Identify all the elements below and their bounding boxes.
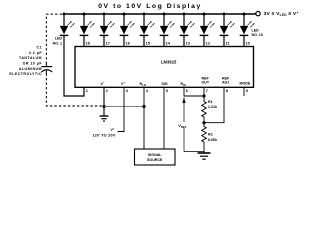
LED 1 — [60, 14, 75, 35]
node pin7 — [202, 94, 205, 97]
capacitor C1 — [41, 64, 52, 74]
svg-text:8.06k: 8.06k — [208, 138, 217, 142]
LED 7 — [180, 14, 195, 35]
node R1/R2 (REF ADJ) — [202, 121, 205, 124]
svg-text:3V ≤ VLED ≤ V+: 3V ≤ VLED ≤ V+ — [264, 11, 299, 17]
svg-text:C1: C1 — [37, 46, 43, 50]
svg-text:6: 6 — [186, 89, 188, 93]
node pin4 — [142, 105, 145, 108]
node pin2 ground — [102, 105, 105, 108]
svg-text:R2: R2 — [208, 133, 213, 137]
signal source box — [135, 149, 176, 165]
svg-text:OUT: OUT — [202, 81, 210, 85]
svg-text:LM3915: LM3915 — [161, 59, 177, 64]
svg-text:15: 15 — [146, 42, 150, 46]
terminal VLED — [256, 11, 260, 15]
svg-text:14: 14 — [166, 42, 171, 46]
wire: pin 7 stub — [203, 87, 205, 100]
svg-text:9: 9 — [246, 89, 248, 93]
resistor R2 8.06k — [202, 123, 217, 153]
wire: ground rail pin2 to pin4 — [104, 106, 144, 108]
node dots on rail — [63, 13, 246, 16]
svg-text:V+: V+ — [110, 127, 114, 132]
svg-text:ELECTROLYTIC: ELECTROLYTIC — [9, 72, 42, 76]
LED 6 — [160, 14, 175, 35]
LED 8 — [200, 14, 215, 35]
svg-text:17: 17 — [106, 42, 110, 46]
svg-text:4: 4 — [146, 89, 149, 93]
wire: pin 2 to ground — [103, 87, 105, 115]
svg-text:5: 5 — [166, 89, 168, 93]
svg-text:1.21k: 1.21k — [208, 105, 217, 109]
wire: dashed C1 to ground node — [46, 74, 102, 107]
wire: pin 6 to pin 7 (RHI to REF OUT) — [184, 87, 204, 96]
resistor R1 1.21k — [202, 100, 217, 123]
wire: dashed VLED to C1 — [46, 14, 62, 63]
svg-text:0V to 10V Log Display: 0V to 10V Log Display — [98, 3, 202, 10]
svg-text:12: 12 — [206, 42, 210, 46]
wires: LED cathodes to top pins — [84, 36, 244, 47]
svg-text:LED: LED — [252, 28, 260, 32]
wire: pin 5 to signal source — [163, 87, 165, 149]
VREF arrow — [178, 97, 204, 151]
svg-text:ADJ: ADJ — [222, 81, 229, 85]
svg-text:8: 8 — [226, 89, 228, 93]
wire: pin 4 to signal source — [143, 87, 145, 149]
svg-text:13: 13 — [186, 42, 190, 46]
svg-text:2.2 μF: 2.2 μF — [29, 51, 42, 55]
LED 4 — [120, 14, 135, 35]
svg-text:RHI: RHI — [181, 82, 187, 87]
LED 3 — [100, 14, 115, 35]
LED 2 — [80, 14, 95, 35]
svg-text:OR 10 μF: OR 10 μF — [23, 62, 43, 66]
svg-text:1: 1 — [86, 89, 88, 93]
ground at R2 — [198, 153, 211, 159]
LED 9 — [220, 14, 235, 35]
svg-text:MODE: MODE — [240, 82, 251, 86]
wire: VLED top rail — [64, 13, 256, 15]
svg-text:LED: LED — [55, 37, 63, 41]
svg-text:10: 10 — [246, 42, 250, 46]
svg-text:V−: V− — [101, 81, 105, 86]
svg-text:NO. 1: NO. 1 — [53, 41, 62, 45]
svg-text:SOURCE: SOURCE — [147, 158, 163, 162]
svg-text:SIGNAL: SIGNAL — [148, 153, 162, 157]
svg-text:3: 3 — [126, 89, 128, 93]
svg-text:12V TO 20V: 12V TO 20V — [92, 133, 116, 137]
C1 value label — [9, 46, 42, 77]
wire: pin 3 to V+ — [118, 87, 125, 131]
wire: LED1 cathode to pin 1 — [64, 36, 84, 96]
svg-text:2: 2 — [106, 89, 108, 93]
svg-text:R1: R1 — [208, 100, 213, 104]
svg-text:RLO: RLO — [140, 82, 147, 87]
ground at pin 2 — [100, 116, 109, 121]
svg-text:SIG: SIG — [162, 82, 168, 86]
wire: pin 9 MODE stub — [243, 87, 245, 96]
svg-text:NO. 10: NO. 10 — [252, 33, 263, 37]
svg-text:7: 7 — [206, 89, 208, 93]
LED 10 — [240, 14, 255, 35]
op-amp U1 LM3915 body — [75, 47, 254, 88]
wire: pin 8 to R1/R2 node — [204, 87, 224, 122]
svg-text:TANTALUM: TANTALUM — [19, 56, 42, 60]
svg-text:18: 18 — [86, 42, 90, 46]
svg-text:16: 16 — [126, 42, 130, 46]
LED 5 — [140, 14, 155, 35]
svg-text:ALUMINUM: ALUMINUM — [19, 67, 42, 71]
svg-text:11: 11 — [226, 42, 230, 46]
svg-text:V+: V+ — [121, 81, 125, 86]
